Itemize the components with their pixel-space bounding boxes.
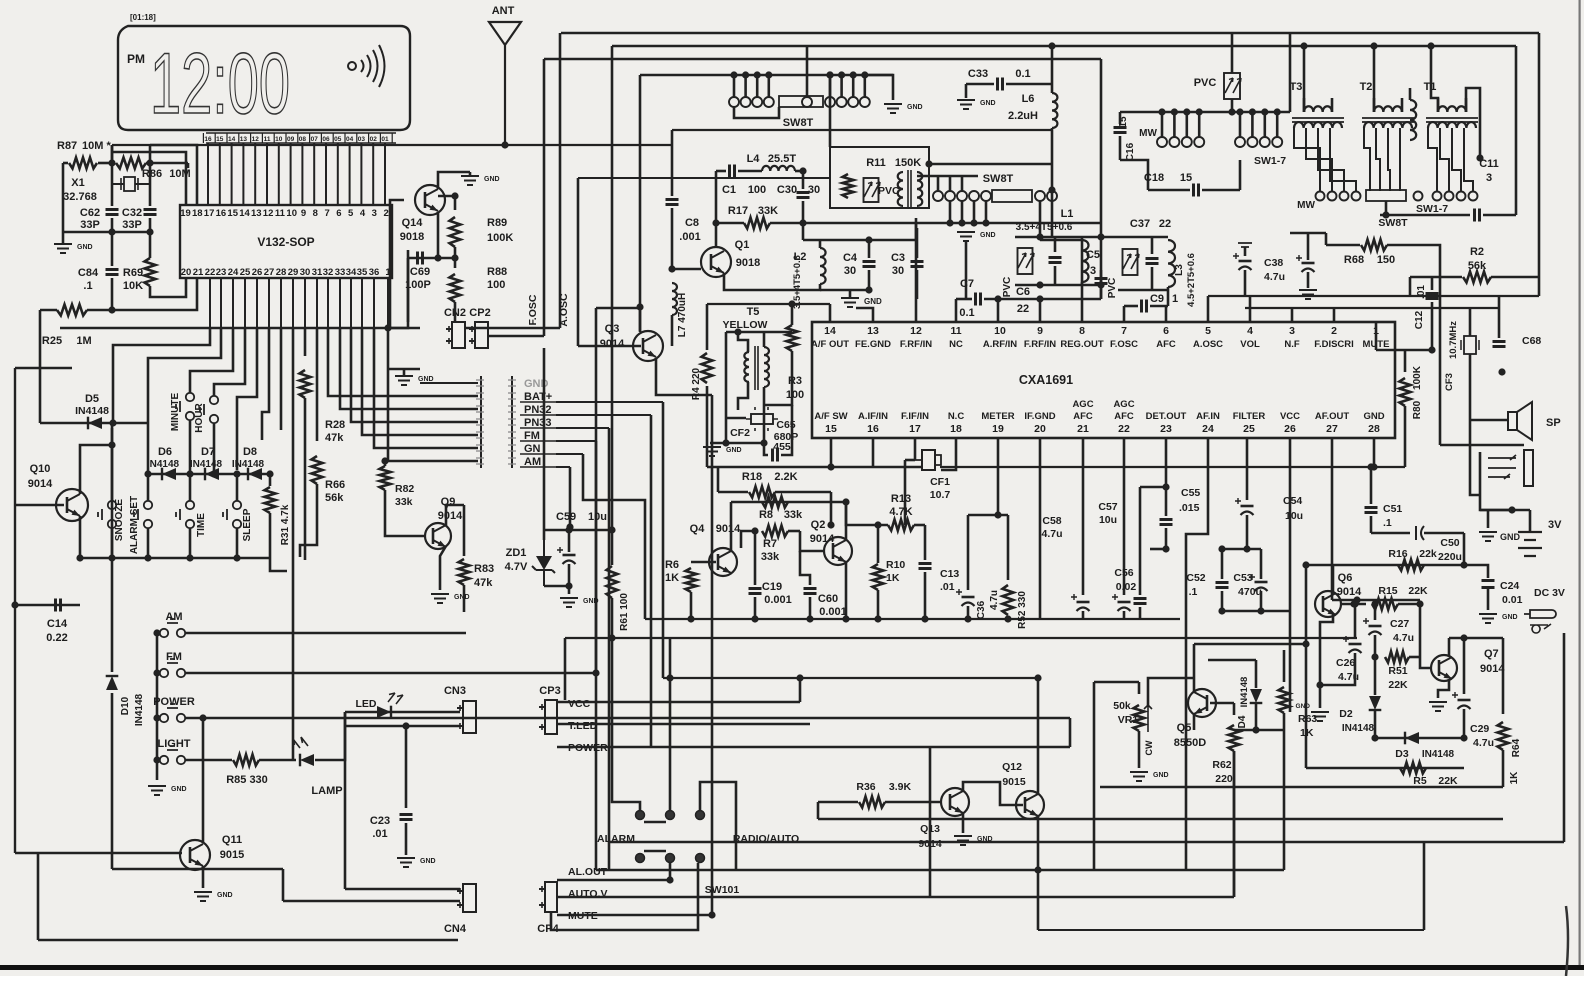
wire SW8T-1 stub L2 — [756, 75, 759, 97]
inductor L6 — [1052, 93, 1057, 128]
capacitor C51 — [1365, 508, 1378, 513]
capacitor C13 — [919, 564, 932, 569]
svg-text:06: 06 — [322, 136, 330, 143]
capacitor C16 — [1114, 128, 1127, 133]
wire D10 col top — [111, 423, 114, 672]
wire c29 top — [1463, 638, 1466, 694]
wire r2 left — [1410, 276, 1462, 279]
svg-text:9014: 9014 — [716, 523, 741, 535]
wire bat top — [1529, 510, 1532, 532]
wire T1 prim left up — [1431, 46, 1438, 112]
svg-text:2: 2 — [1331, 325, 1337, 337]
svg-text:CXA1691: CXA1691 — [1019, 373, 1073, 387]
svg-text:22: 22 — [205, 267, 216, 278]
ground crystal — [54, 244, 72, 253]
switch SW8T-1 slider — [779, 96, 823, 107]
wire LED loop left — [344, 712, 347, 889]
wire cf2 drop2 — [763, 405, 766, 443]
junction t5 top — [734, 328, 741, 335]
wire U2 pin 36 stub — [373, 278, 375, 328]
wire c50 right — [1424, 532, 1464, 535]
svg-text:10.7MHz: 10.7MHz — [1448, 321, 1459, 359]
wire Q11 base feed — [15, 852, 182, 854]
svg-text:R68: R68 — [1344, 254, 1364, 266]
capacitor C6 — [1049, 258, 1062, 263]
svg-text:22: 22 — [1017, 303, 1029, 315]
wire T1 prim right — [1466, 88, 1480, 158]
junction SW1-7a 0 — [1236, 108, 1243, 115]
wire c65 left — [764, 443, 768, 455]
wire pin12 up long — [915, 218, 918, 322]
svg-text:R6: R6 — [665, 559, 679, 571]
wire c7 left — [956, 298, 972, 301]
wire c39 bot — [1307, 272, 1310, 288]
wire SW1-7a stub 2 — [1264, 112, 1267, 137]
wire l1 coil bot — [1081, 282, 1084, 285]
wire c18 right — [1202, 189, 1240, 192]
wire r51 right — [1409, 656, 1420, 659]
junction SW8T-3 1 — [1171, 108, 1178, 115]
ground c39 — [1299, 290, 1317, 299]
wire q4 base — [691, 561, 716, 564]
wire jack top v — [1439, 296, 1442, 445]
wire c3 top feed — [915, 223, 918, 240]
wire x565 drop — [564, 638, 567, 700]
wire fmcoil up — [1409, 88, 1412, 100]
capacitor C50 — [1416, 526, 1424, 540]
SW8T-2 circle L0 — [933, 191, 943, 201]
wire U2 pin 22 stub — [209, 278, 211, 328]
wire fm group bot — [1118, 289, 1168, 292]
wire pin4 up — [1249, 296, 1252, 322]
wire L1 right down — [1100, 59, 1103, 299]
wire c6 top — [1054, 237, 1057, 252]
svg-text:MW: MW — [1297, 200, 1315, 211]
wire c26 top — [1354, 604, 1357, 638]
VR1 wiper — [1144, 705, 1152, 732]
junction C62 gnd — [108, 228, 115, 235]
junction c53 b — [1257, 607, 1264, 614]
svg-text:C60: C60 — [818, 593, 838, 605]
wire r52 bot — [1007, 618, 1010, 619]
wire U2 pin 25 stub — [244, 278, 246, 328]
junction y619 x755 — [751, 615, 758, 622]
svg-text:D10: D10 — [120, 696, 131, 715]
junction r15 right — [1416, 600, 1423, 607]
wire pin2 up — [1333, 308, 1336, 322]
ground C4 — [841, 298, 859, 307]
svg-text:C6: C6 — [1016, 286, 1030, 298]
svg-text:C51: C51 — [1383, 503, 1402, 515]
junction diode row left — [144, 470, 151, 477]
junction afout c51 — [1353, 596, 1360, 603]
junction y678 q12 — [1034, 674, 1041, 681]
wire r52 top — [1007, 515, 1010, 580]
svg-text:C5: C5 — [1086, 249, 1100, 261]
svg-text:FE.GND: FE.GND — [855, 339, 891, 350]
wire r4 top — [706, 304, 709, 350]
svg-text:R5: R5 — [1413, 775, 1427, 787]
wire SW8T-2 stub d3 — [985, 201, 988, 223]
junction meter — [994, 511, 1001, 518]
svg-text:23: 23 — [1160, 423, 1172, 435]
wire c53 col — [1260, 549, 1263, 579]
svg-text:IN4148: IN4148 — [1342, 723, 1375, 734]
wire c60 top — [800, 551, 810, 585]
resistor R5 — [1400, 763, 1426, 774]
svg-text:9015: 9015 — [1002, 776, 1026, 788]
svg-text:02: 02 — [370, 136, 378, 143]
ground C7 — [957, 232, 975, 241]
svg-text:L3: L3 — [1174, 264, 1185, 276]
capacitor C57 — [1118, 601, 1131, 604]
wire U2 pin18 to crystal net — [150, 145, 197, 205]
svg-text:R2: R2 — [1470, 246, 1484, 258]
wire c37 bot — [1151, 267, 1154, 290]
junction c51 top — [1367, 463, 1374, 470]
junction D5 x113 — [109, 419, 116, 426]
svg-text:1: 1 — [1172, 293, 1178, 305]
junction y678 vcc — [796, 674, 803, 681]
wire y308 stub — [596, 307, 641, 310]
svg-text:T2: T2 — [1360, 81, 1373, 93]
ground Q9 — [431, 594, 449, 603]
junction L6 bus — [1048, 186, 1055, 193]
wire vr1 wiper link — [1148, 678, 1194, 705]
svg-text:C53: C53 — [1233, 572, 1252, 584]
wire Q10 base — [15, 504, 64, 507]
svg-text:C8: C8 — [685, 217, 699, 229]
svg-text:10K: 10K — [123, 280, 143, 292]
svg-text:Q1: Q1 — [735, 239, 750, 251]
svg-text:VCC: VCC — [1280, 411, 1300, 422]
wire T3 tap 2 — [1318, 128, 1344, 191]
wire SW8T-2 stub d1 — [961, 201, 964, 223]
svg-text:15: 15 — [216, 136, 224, 143]
svg-text:IN4148: IN4148 — [190, 459, 223, 470]
wire c27 bot — [1374, 635, 1377, 657]
wire vcc jog — [799, 678, 802, 702]
capacitor C52sym — [1216, 583, 1229, 588]
SW8T-3 circle L1 — [1169, 137, 1179, 147]
wire r64 top — [1502, 638, 1505, 714]
svg-text:12: 12 — [263, 208, 274, 219]
wire SW8T-2 stub u0 — [937, 176, 940, 191]
wire GN label underline — [520, 453, 556, 455]
junction q6 bus r — [1460, 561, 1467, 568]
wire C23 bottom — [405, 823, 408, 855]
wire c6 bot — [1054, 266, 1057, 285]
svg-text:22: 22 — [1159, 218, 1171, 230]
switch SW101 top pin 2 — [696, 811, 705, 820]
svg-text:C12: C12 — [1414, 310, 1425, 329]
wire c29 bot — [1463, 709, 1466, 738]
svg-text:11: 11 — [264, 136, 271, 143]
svg-text:CW: CW — [1144, 740, 1154, 755]
junction r51 left — [1371, 653, 1378, 660]
wire U2 pin 31 stub — [316, 278, 318, 328]
wire c4 gnd stub — [849, 290, 852, 298]
wire vertical PN32 net — [650, 415, 653, 747]
svg-text:10u: 10u — [1285, 510, 1303, 522]
inductor L4 — [762, 166, 795, 171]
junction q14 e — [434, 254, 441, 261]
svg-text:R62: R62 — [1212, 759, 1231, 771]
capacitor C12 — [1426, 294, 1439, 299]
wire SW1-7a stub 1 — [1251, 112, 1254, 137]
svg-text:C11: C11 — [1479, 158, 1499, 170]
junction C32 gnd — [146, 228, 153, 235]
svg-text:C18: C18 — [1144, 172, 1164, 184]
LED D9 — [377, 706, 391, 718]
wire display pin 12 to IC — [254, 143, 256, 205]
junction mute x712 — [708, 911, 715, 918]
junction T2 y46 — [1370, 42, 1377, 49]
trimmer PVC fm2 — [1224, 73, 1240, 99]
svg-text:R66: R66 — [325, 479, 345, 491]
junction C14 left — [11, 601, 18, 608]
wire q6 left rail — [1305, 565, 1308, 768]
wire C1 left — [716, 170, 726, 173]
svg-text:C36: C36 — [976, 600, 987, 619]
junction q7 c29 — [1460, 634, 1467, 641]
speaker SP — [1508, 412, 1517, 430]
junction c27 top — [1371, 600, 1378, 607]
junction T1 right — [1476, 154, 1483, 161]
switch SW101 bot pin 2 — [696, 854, 705, 863]
wire TLED row — [557, 723, 810, 726]
svg-text:Q2: Q2 — [811, 519, 826, 531]
wire c18 right up — [1239, 160, 1242, 190]
wire R69 bottom to pin20 — [150, 278, 186, 297]
svg-text:.01: .01 — [372, 828, 387, 840]
wire display pin 02 to IC — [372, 143, 374, 205]
svg-text:19: 19 — [992, 423, 1004, 435]
wire t5 sec top — [763, 332, 766, 347]
wire gnd stub 33 — [403, 369, 406, 376]
wire pin9 stub up — [1039, 299, 1042, 322]
capacitor C38 — [1239, 260, 1252, 263]
svg-text:26: 26 — [1284, 423, 1296, 435]
wire SW8T-1 gnd link — [865, 75, 893, 100]
SW8T-1 circle L0 — [729, 97, 739, 107]
junction power q11 — [199, 714, 206, 721]
wire Q14 emitter — [437, 212, 440, 258]
junction zd1 top — [565, 526, 572, 533]
svg-text:10.7: 10.7 — [930, 489, 951, 501]
svg-text:680P: 680P — [774, 431, 799, 443]
svg-text:10: 10 — [994, 325, 1006, 337]
wire crystal to y145 — [111, 145, 114, 163]
svg-text:28: 28 — [276, 267, 287, 278]
svg-text:VCC: VCC — [568, 698, 591, 710]
IC U2 V132-SOP body — [180, 205, 392, 278]
wire vr1 top — [1138, 682, 1141, 694]
wire c52 bus bot — [1222, 610, 1290, 613]
wire x38 col — [37, 853, 40, 940]
wire Q14 collector gnd — [438, 172, 470, 189]
svg-text:L1: L1 — [1061, 208, 1074, 220]
svg-text:07: 07 — [311, 136, 319, 143]
wire dc drop — [1563, 633, 1566, 842]
junction POWER rail — [153, 714, 160, 721]
wire C1 to L4 — [738, 170, 762, 173]
capacitor C60 — [804, 589, 817, 594]
wire U2 pin 1 stub — [387, 278, 389, 328]
capacitor C53sym — [1255, 581, 1268, 584]
svg-text:IN4148: IN4148 — [1422, 749, 1455, 760]
LED arrows — [388, 693, 403, 704]
wire crystal top to pin19 — [149, 145, 152, 163]
wire r18 left — [718, 491, 748, 494]
svg-text:R88: R88 — [487, 266, 507, 278]
wire display pin 16 to IC — [207, 143, 209, 205]
svg-text:9: 9 — [301, 208, 306, 219]
bus y638 low — [565, 637, 1357, 639]
svg-text:05: 05 — [334, 136, 342, 143]
wire FM label underline — [520, 440, 556, 442]
svg-text:C54: C54 — [1283, 495, 1302, 507]
capacitor C3 — [911, 262, 924, 267]
junction c56 branch — [1162, 483, 1169, 490]
svg-text:VOL: VOL — [1240, 339, 1260, 350]
wire y178 to R11 area — [578, 177, 830, 179]
display pin cells — [206, 133, 396, 143]
wire c7 gnd stub — [965, 241, 968, 299]
svg-text:IN4148: IN4148 — [75, 405, 109, 417]
wire PN33 right to x609 — [556, 427, 609, 429]
transistor Q12 — [1016, 791, 1044, 819]
svg-text:10u: 10u — [588, 511, 607, 523]
svg-text:Q4: Q4 — [690, 523, 706, 535]
svg-text:47k: 47k — [474, 577, 493, 589]
wire T3 tap 1 — [1306, 128, 1332, 191]
switch row T1 c0 — [1414, 192, 1423, 201]
wire c24 branch — [1464, 565, 1488, 578]
transistor Q9 — [425, 523, 451, 549]
wire r63 top — [1283, 650, 1286, 682]
resistor R66 — [312, 456, 323, 484]
wire T1 tap 0 — [1428, 128, 1437, 191]
svg-text:11: 11 — [950, 325, 961, 337]
svg-text:.1: .1 — [1189, 586, 1198, 598]
wire C32 top — [149, 163, 152, 206]
svg-text:1M: 1M — [76, 335, 91, 347]
junction SW8T-1 R2 — [850, 71, 857, 78]
wire R86 right — [146, 162, 188, 165]
wire T1 tap 1 — [1440, 128, 1449, 191]
resistor R89 — [450, 217, 461, 247]
wire pin24 down — [1186, 438, 1208, 870]
junction diode row d8 — [233, 470, 240, 477]
wire L2 top bus — [803, 239, 869, 242]
svg-text:ANT: ANT — [492, 5, 515, 17]
wire T2 prim left — [1373, 98, 1376, 112]
wire jack top link — [1440, 444, 1524, 447]
wire C1 left col — [715, 171, 718, 247]
svg-text:4.7u: 4.7u — [1473, 737, 1494, 749]
wire display pin 05 to IC — [337, 143, 339, 205]
svg-text:28: 28 — [1368, 423, 1380, 435]
capacitor C29 — [1458, 699, 1471, 702]
svg-text:T3: T3 — [1290, 81, 1303, 93]
wire r13 left — [846, 502, 888, 525]
capacitor C24 — [1482, 581, 1495, 588]
wire time bottom — [189, 528, 192, 558]
wire U2 pin 30 stub — [304, 278, 306, 328]
wire q13 coll — [963, 782, 1000, 800]
junction diode row right — [266, 470, 273, 477]
svg-text:33K: 33K — [758, 205, 778, 217]
ground Q11 — [194, 892, 212, 901]
wire d4 link top — [1208, 659, 1256, 662]
SW8T-1 circle R1 — [837, 97, 847, 107]
wire SW8T-3 stub 0 — [1161, 112, 1164, 137]
page bottom edge — [0, 965, 1584, 970]
svg-text:Q5: Q5 — [1177, 722, 1192, 734]
bus switch bottoms — [80, 557, 270, 560]
wire U2 pin 32 stub — [327, 278, 329, 328]
svg-text:AGC: AGC — [1072, 399, 1093, 410]
svg-text:C14: C14 — [47, 618, 68, 630]
wire sleep top — [236, 474, 239, 501]
wire VCC row — [557, 701, 800, 704]
junction y619 x878 — [874, 615, 881, 622]
transistor Q13 — [941, 788, 969, 816]
wire R86 to pin19col — [187, 163, 190, 168]
svg-text:4.7u: 4.7u — [1393, 632, 1414, 644]
wire zd1 top — [544, 529, 612, 532]
svg-text:12: 12 — [252, 136, 260, 143]
svg-text:GND: GND — [1502, 614, 1518, 621]
svg-text:N.F: N.F — [1284, 339, 1300, 350]
svg-text:R13: R13 — [891, 493, 911, 505]
svg-text:100K: 100K — [1412, 365, 1423, 390]
wire c54 bot — [1246, 515, 1249, 549]
svg-text:R7: R7 — [763, 538, 777, 550]
wire T3 prim left — [1303, 98, 1306, 112]
wire t5 prim top — [738, 332, 748, 352]
wire vertical FM net — [595, 441, 598, 673]
switch SLEEP — [233, 501, 241, 509]
wire x612 long vertical — [611, 46, 614, 527]
wire pin30 to R28 — [304, 328, 307, 356]
capacitor C56 — [1134, 599, 1147, 604]
wire POWER left stub — [157, 717, 160, 720]
wire r15 right — [1398, 603, 1420, 606]
SW8T-3 circle L0 — [1157, 137, 1167, 147]
svg-text:IN4148: IN4148 — [1239, 677, 1250, 708]
transformer T1 secondary — [1428, 122, 1476, 128]
ground VR1 — [1130, 772, 1148, 781]
svg-text:16: 16 — [204, 136, 212, 143]
wire SW8T-1 stub R3 — [863, 75, 866, 97]
wire L1 top bus — [1015, 236, 1101, 239]
junction q6 rail mid — [1302, 640, 1309, 647]
wire r2 right — [1491, 276, 1539, 279]
wire r3 top — [791, 304, 794, 325]
wire pin16 down — [872, 438, 875, 467]
svg-text:[01:18]: [01:18] — [130, 13, 156, 22]
wire d3 row — [1375, 737, 1464, 740]
resistor VR1 — [1134, 705, 1145, 731]
junction l1 right2 — [1097, 281, 1104, 288]
wire r68 right — [1387, 245, 1440, 296]
svg-text:33: 33 — [335, 267, 346, 278]
wire c8 bot — [671, 208, 674, 269]
SW1-7a circle 0 — [1235, 137, 1245, 147]
svg-text:22K: 22K — [1438, 775, 1458, 787]
